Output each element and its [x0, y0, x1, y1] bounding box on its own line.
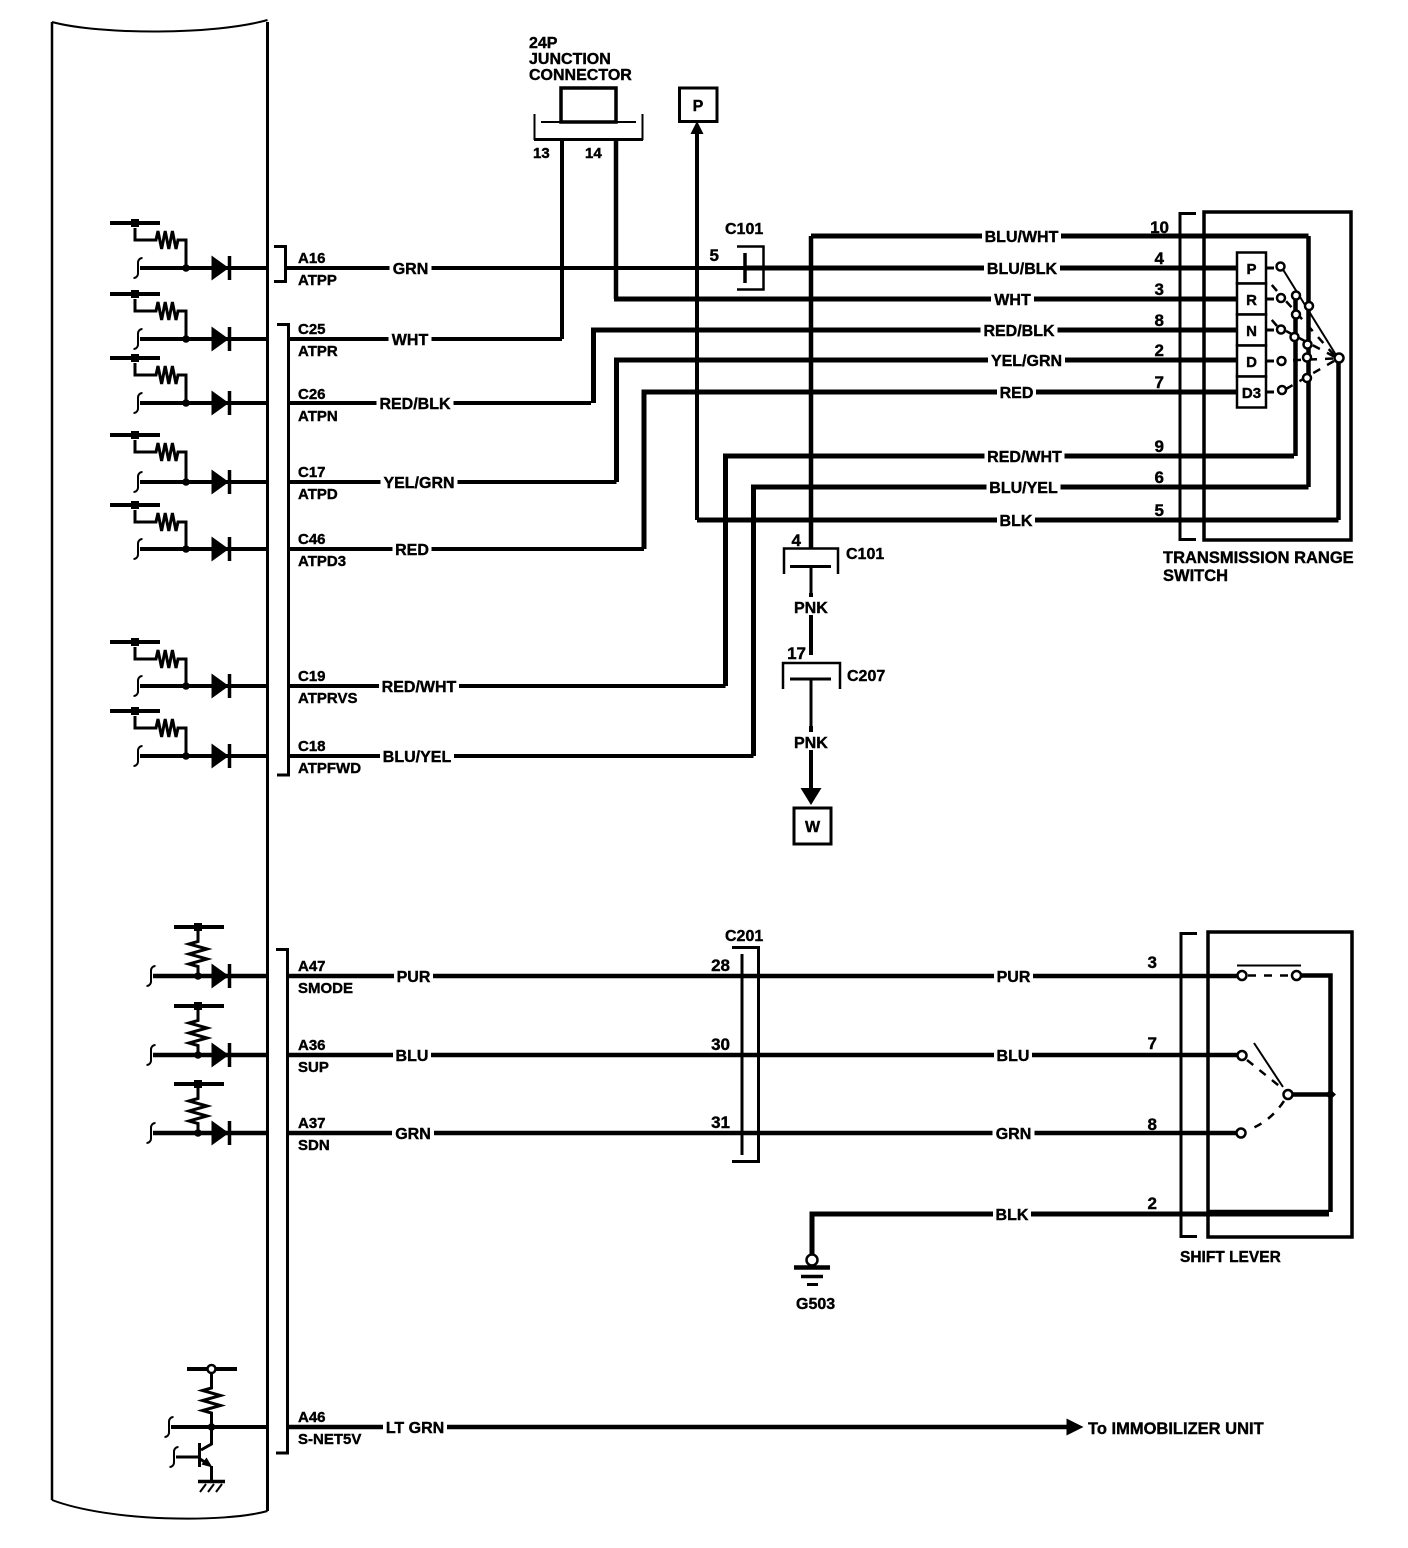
- svg-text:D: D: [1246, 354, 1257, 371]
- P box: [680, 88, 718, 122]
- wire (Q1 emitter to ground): [210, 1466, 213, 1481]
- wire PNK (C207 to W): [809, 726, 813, 790]
- diode (C26): [212, 391, 230, 415]
- pin number 17: [783, 644, 807, 663]
- ground (internal, chassis style): [198, 1480, 225, 1484]
- label BLU/BLK: [984, 259, 1060, 278]
- label LT GRN: [383, 1418, 447, 1437]
- svg-text:R: R: [1246, 292, 1257, 309]
- node (square, C17 feed): [131, 431, 139, 439]
- svg-text:RED/WHT: RED/WHT: [987, 449, 1062, 466]
- svg-text:5: 5: [1155, 501, 1164, 520]
- 24P junction connector left cap: [534, 114, 536, 140]
- wire (A36 main line): [153, 1053, 267, 1058]
- wire continuation mark (A47): [147, 966, 156, 986]
- wire continuation mark (A16): [134, 258, 143, 278]
- svg-text:ATPD: ATPD: [298, 486, 338, 503]
- svg-text:N: N: [1246, 323, 1257, 340]
- svg-text:WHT: WHT: [392, 332, 429, 349]
- svg-text:BLU: BLU: [997, 1048, 1030, 1065]
- wire (bias feed C25): [110, 292, 160, 296]
- svg-text:BLU: BLU: [396, 1048, 429, 1065]
- svg-text:PUR: PUR: [397, 969, 431, 986]
- transistor Q1 (collector lead): [201, 1427, 212, 1450]
- svg-text:G503: G503: [796, 1296, 835, 1313]
- control module boundary (bottom wavy edge): [52, 1500, 268, 1519]
- wire (C17 main line): [140, 480, 267, 484]
- svg-text:S-NET5V: S-NET5V: [298, 1431, 361, 1448]
- TRS connector bracket: [1180, 214, 1196, 540]
- arrowhead to immobilizer: [1067, 1419, 1084, 1436]
- label WHT: [389, 330, 432, 349]
- dashed traveler to N: [1271, 319, 1334, 357]
- moving contact circle (pin 10): [1305, 302, 1313, 310]
- svg-text:C46: C46: [298, 531, 326, 548]
- moving contact circle m3: [1291, 333, 1299, 341]
- connector bracket A16: [274, 247, 286, 282]
- wire riser to C101 pin 4: [809, 236, 814, 549]
- dashed switch pin3: [1248, 974, 1291, 977]
- svg-text:30: 30: [711, 1035, 730, 1054]
- C207 cap male T: [790, 679, 831, 726]
- position box P: [1237, 253, 1266, 284]
- label BLK right: [997, 511, 1035, 530]
- label PUR right: [994, 967, 1033, 986]
- wire BLU/YEL (C18 to TRS pin 6): [287, 754, 754, 758]
- node (A46 junction): [208, 1423, 216, 1431]
- ground riser circle G503: [807, 1255, 818, 1266]
- svg-text:ATPRVS: ATPRVS: [298, 690, 357, 707]
- resistor (A46 vertical): [203, 1373, 221, 1427]
- svg-text:YEL/GRN: YEL/GRN: [383, 475, 454, 492]
- svg-text:BLU/BLK: BLU/BLK: [987, 261, 1058, 278]
- label YEL/GRN left: [381, 473, 458, 492]
- C201 connector female bracket: [732, 948, 759, 1162]
- diode (C25): [212, 327, 230, 351]
- wire continuation mark (Q1 base): [170, 1447, 179, 1467]
- svg-text:A36: A36: [298, 1037, 326, 1054]
- diode (A37): [212, 1121, 230, 1145]
- wire BLK (P arrow drop to TRS pin 5): [695, 128, 699, 520]
- svg-text:LT GRN: LT GRN: [386, 1420, 444, 1437]
- W box (warning indicator): [794, 808, 831, 844]
- label BLK lower: [993, 1205, 1031, 1224]
- position box R: [1237, 284, 1266, 315]
- label BLU left: [393, 1046, 431, 1065]
- svg-text:W: W: [805, 819, 821, 836]
- control module boundary (right edge): [266, 22, 269, 1511]
- C201 connector male line: [741, 954, 744, 1155]
- svg-text:SMODE: SMODE: [298, 980, 353, 997]
- node (C46 junction): [182, 545, 190, 553]
- resistor (C46 pull-up): [135, 510, 186, 550]
- wire YEL/GRN (C17 to TRS pin 2): [287, 480, 617, 484]
- svg-text:A16: A16: [298, 250, 326, 267]
- arrowhead into W box: [801, 788, 822, 805]
- wire continuation mark (C19): [134, 676, 143, 696]
- node (square, A16 feed): [131, 219, 139, 227]
- node (square, C46 feed): [131, 501, 139, 509]
- diode (C17): [212, 470, 230, 494]
- wire (A37 main line): [153, 1131, 267, 1136]
- svg-text:BLU/YEL: BLU/YEL: [383, 749, 452, 766]
- wire (C19 main line): [140, 684, 267, 688]
- wire pin 10 / pin 6 vertical chain inside TRS: [1306, 236, 1311, 487]
- wire PUR (A47 to shift lever pin 3): [286, 974, 1238, 979]
- transistor Q1 (emitter lead with arrow): [200, 1459, 207, 1464]
- svg-text:RED: RED: [395, 542, 429, 559]
- switch blade P to common (solid): [1283, 270, 1336, 356]
- svg-text:C207: C207: [847, 668, 885, 685]
- svg-text:C19: C19: [298, 668, 326, 685]
- node (C25 junction): [182, 335, 190, 343]
- contact stub D3: [1266, 391, 1274, 394]
- svg-text:RED: RED: [1000, 385, 1034, 402]
- node (C26 junction): [182, 399, 190, 407]
- resistor (C17 pull-up): [135, 440, 186, 480]
- node junction diamond: [1325, 1090, 1336, 1100]
- wire pin 9 vertical chain inside TRS: [1293, 296, 1298, 456]
- moving contact circle m6: [1303, 374, 1311, 382]
- node (square, C25 feed): [131, 290, 139, 298]
- control module boundary (top wavy edge): [52, 20, 268, 32]
- label YEL/GRN right: [988, 351, 1065, 370]
- shift lever box: [1208, 932, 1352, 1237]
- diode (C19): [212, 674, 230, 698]
- svg-text:C25: C25: [298, 321, 326, 338]
- resistor (C26 pull-up): [135, 363, 186, 403]
- resistor (C19 pull-up): [135, 647, 186, 687]
- svg-text:ATPR: ATPR: [298, 343, 338, 360]
- diode (C18): [212, 744, 230, 768]
- svg-text:C17: C17: [298, 464, 326, 481]
- svg-text:31: 31: [711, 1113, 730, 1132]
- resistor (A37 vertical): [189, 1088, 207, 1133]
- svg-text:10: 10: [1150, 218, 1169, 237]
- node (C17 junction): [182, 478, 190, 486]
- PNK label: [792, 597, 834, 617]
- contact stub P: [1266, 267, 1274, 270]
- node (open circle, A46 feed): [208, 1365, 216, 1373]
- svg-text:A47: A47: [298, 958, 326, 975]
- svg-text:YEL/GRN: YEL/GRN: [991, 353, 1062, 370]
- wire (bias feed A37): [174, 1082, 224, 1086]
- contact circle pin 3 right: [1292, 971, 1301, 980]
- moving contact circle m4: [1304, 341, 1312, 349]
- contact circle pin 7: [1238, 1051, 1247, 1060]
- wire LT GRN (A46 to immobilizer): [286, 1425, 1069, 1430]
- node (A36 junction): [194, 1051, 202, 1059]
- svg-text:C101: C101: [846, 546, 884, 563]
- svg-text:SDN: SDN: [298, 1137, 330, 1154]
- wire pin 5 riser inside TRS: [1336, 358, 1341, 520]
- contact circle N: [1277, 326, 1285, 334]
- wire junction connector pin 14 drop and WHT right (to TRS pin 3): [614, 140, 619, 299]
- dashed traveler common to pin8: [1248, 1101, 1284, 1130]
- wire common to bus with junction diamond: [1292, 1092, 1331, 1097]
- label GRN: [390, 259, 432, 278]
- label BLU/WHT: [982, 227, 1061, 246]
- svg-text:C26: C26: [298, 386, 326, 403]
- label RED/BLK left: [377, 394, 454, 413]
- wire continuation mark (A36): [147, 1045, 156, 1065]
- wire continuation mark (C18): [134, 746, 143, 766]
- switch blade (solid) pin 7: [1254, 1043, 1283, 1087]
- wire (C26 main line): [140, 401, 267, 405]
- wire (bias feed A47): [174, 925, 224, 929]
- svg-text:2: 2: [1155, 341, 1164, 360]
- node (square, A36 feed): [194, 1002, 202, 1010]
- contact circle P: [1277, 263, 1285, 271]
- wire (bias feed C19): [110, 640, 160, 644]
- transistor Q1 (base lead): [176, 1456, 198, 1459]
- svg-text:ATPP: ATPP: [298, 272, 337, 289]
- svg-text:6: 6: [1155, 468, 1164, 487]
- shift lever connector bracket: [1181, 934, 1197, 1237]
- svg-text:WHT: WHT: [994, 292, 1031, 309]
- label RED right: [997, 383, 1036, 402]
- C207 cap bracket: [783, 663, 840, 689]
- common point circle: [1335, 354, 1344, 363]
- PNK label 2: [792, 732, 834, 752]
- resistor (A36 vertical): [189, 1010, 207, 1055]
- label BLU/YEL left: [380, 747, 454, 766]
- dashed traveler to R: [1271, 284, 1334, 355]
- wire continuation mark (A37): [147, 1123, 156, 1143]
- wire BLU (A36 to shift lever pin 7): [286, 1053, 1238, 1058]
- label BLU right: [994, 1046, 1032, 1065]
- svg-text:PUR: PUR: [997, 969, 1031, 986]
- contact stub R: [1266, 298, 1274, 301]
- svg-text:BLK: BLK: [1000, 513, 1033, 530]
- node (C18 junction): [182, 752, 190, 760]
- svg-text:BLK: BLK: [996, 1207, 1029, 1224]
- node (square, C18 feed): [131, 707, 139, 715]
- wire GRN / BLU-BLK (A16 to TRS pin 4): [284, 266, 745, 270]
- svg-text:5: 5: [710, 246, 719, 265]
- svg-text:BLU/YEL: BLU/YEL: [989, 480, 1058, 497]
- transistor Q1 (base bar): [198, 1443, 201, 1467]
- C101 cap bracket: [784, 549, 838, 575]
- node (square, C19 feed): [131, 638, 139, 646]
- svg-text:JUNCTION: JUNCTION: [529, 51, 611, 68]
- svg-text:A46: A46: [298, 1409, 326, 1426]
- svg-text:ATPD3: ATPD3: [298, 553, 346, 570]
- svg-text:GRN: GRN: [395, 1126, 431, 1143]
- dashed traveler to D3: [1286, 361, 1334, 389]
- wire from pin3 contact to right bus: [1301, 976, 1331, 1213]
- wire junction connector pin 13 riser: [560, 140, 564, 339]
- svg-text:CONNECTOR: CONNECTOR: [529, 67, 632, 84]
- wire (A16 main line): [140, 266, 267, 270]
- wire (bias feed A16): [110, 221, 160, 225]
- svg-text:ATPN: ATPN: [298, 408, 338, 425]
- 24P junction connector bar (thin line): [541, 121, 636, 123]
- wire RED/WHT (C19 to TRS pin 9): [287, 684, 726, 688]
- 24P junction connector body: [561, 88, 616, 122]
- svg-text:SUP: SUP: [298, 1059, 329, 1076]
- node (A16 junction): [182, 264, 190, 272]
- svg-text:17: 17: [787, 644, 806, 663]
- node (square, A37 feed): [194, 1080, 202, 1088]
- svg-text:28: 28: [711, 956, 730, 975]
- svg-text:ATPFWD: ATPFWD: [298, 760, 361, 777]
- label WHT right: [991, 290, 1034, 309]
- label GRN lower right: [993, 1124, 1035, 1143]
- node (square, A47 feed): [194, 923, 202, 931]
- wire BLK inside shift lever: [1208, 1210, 1329, 1215]
- contact circle R: [1277, 294, 1285, 302]
- contact circle D3: [1278, 386, 1286, 394]
- svg-text:3: 3: [1148, 953, 1157, 972]
- resistor (C25 pull-up): [135, 299, 186, 339]
- node (A37 junction): [194, 1129, 202, 1137]
- svg-text:BLU/WHT: BLU/WHT: [985, 229, 1059, 246]
- svg-text:To IMMOBILIZER UNIT: To IMMOBILIZER UNIT: [1088, 1420, 1264, 1438]
- svg-text:2: 2: [1148, 1194, 1157, 1213]
- svg-text:13: 13: [533, 145, 550, 162]
- svg-text:7: 7: [1155, 373, 1164, 392]
- wire continuation mark (C26): [134, 393, 143, 413]
- svg-text:C101: C101: [725, 221, 763, 238]
- svg-text:GRN: GRN: [393, 261, 429, 278]
- svg-text:3: 3: [1155, 280, 1164, 299]
- wire (A46 main line): [171, 1425, 267, 1429]
- contact circle D: [1278, 357, 1286, 365]
- closed contact indicator (solid line): [1237, 965, 1301, 967]
- ground G503 bar 3: [807, 1283, 818, 1286]
- svg-text:4: 4: [792, 531, 802, 550]
- moving contact circle m1: [1292, 292, 1300, 300]
- C101 cap male T: [790, 567, 831, 594]
- svg-text:C201: C201: [725, 928, 763, 945]
- 24P junction connector right cap: [642, 114, 644, 140]
- wire (C46 main line): [140, 547, 267, 551]
- svg-text:P: P: [1246, 261, 1256, 278]
- svg-text:D3: D3: [1242, 385, 1261, 402]
- wire (bias feed A46): [187, 1367, 237, 1371]
- wire WHT left (C25 to junction connector pin 13): [287, 337, 562, 341]
- ground G503 bar 2: [801, 1275, 823, 1279]
- svg-text:P: P: [693, 98, 704, 115]
- resistor (A47 vertical): [189, 931, 207, 976]
- wire (bias feed C17): [110, 433, 160, 437]
- svg-text:TRANSMISSION RANGE: TRANSMISSION RANGE: [1163, 549, 1354, 567]
- arrowhead into P box: [691, 121, 704, 134]
- position box D: [1237, 346, 1266, 377]
- label RED/BLK right: [981, 321, 1058, 340]
- diode (C46): [212, 537, 230, 561]
- wire PNK (C101 to C207): [809, 593, 813, 655]
- contact circle pin 8: [1237, 1129, 1246, 1138]
- svg-text:9: 9: [1155, 437, 1164, 456]
- wire (C18 main line): [140, 754, 267, 758]
- wire BLK (G503 to shift lever pin 2): [812, 1214, 1329, 1254]
- svg-text:RED/BLK: RED/BLK: [379, 396, 451, 413]
- svg-text:SWITCH: SWITCH: [1163, 567, 1228, 585]
- contact stub N: [1266, 329, 1274, 332]
- svg-text:A37: A37: [298, 1115, 326, 1132]
- svg-text:14: 14: [585, 145, 602, 162]
- wire BLU/WHT (C101 branch to TRS pin 10): [811, 234, 1309, 239]
- 24P junction connector bottom bar: [534, 138, 643, 141]
- svg-text:8: 8: [1155, 311, 1164, 330]
- svg-text:24P: 24P: [529, 35, 558, 52]
- wire continuation mark (C25): [134, 329, 143, 349]
- node (A47 junction): [194, 972, 202, 980]
- resistor (A16 pull-up): [135, 228, 186, 268]
- diode (A47): [212, 964, 230, 988]
- wire continuation mark (A46): [165, 1417, 174, 1437]
- common contact circle: [1284, 1090, 1293, 1099]
- svg-text:PNK: PNK: [794, 600, 828, 617]
- label GRN lower left: [392, 1124, 434, 1143]
- contact stub D: [1266, 360, 1274, 363]
- svg-text:SHIFT LEVER: SHIFT LEVER: [1180, 1249, 1281, 1266]
- dashed traveler to D: [1287, 359, 1333, 361]
- wire (A47 main line): [153, 974, 267, 979]
- wire continuation mark (C46): [134, 539, 143, 559]
- contact circle pin 3: [1238, 971, 1247, 980]
- svg-text:C18: C18: [298, 738, 326, 755]
- wire (bias feed A36): [174, 1004, 224, 1008]
- svg-text:7: 7: [1148, 1034, 1157, 1053]
- moving contact circle m5: [1303, 354, 1311, 362]
- TRS box: [1204, 212, 1351, 540]
- wire GRN (A37 to shift lever pin 8): [286, 1131, 1237, 1136]
- node (square, C26 feed): [131, 354, 139, 362]
- connector bracket C25-C18 group: [277, 325, 289, 776]
- position box N: [1237, 315, 1266, 346]
- C101 male pin bar: [743, 253, 747, 283]
- label RED left: [393, 540, 432, 559]
- diode (A16): [212, 256, 230, 280]
- wire (bias feed C26): [110, 356, 160, 360]
- svg-text:4: 4: [1155, 249, 1165, 268]
- svg-text:GRN: GRN: [996, 1126, 1032, 1143]
- wire RED/BLK (C26 to TRS pin 8): [287, 401, 591, 405]
- svg-text:PNK: PNK: [794, 735, 828, 752]
- control module boundary (left edge): [51, 22, 54, 1500]
- position box D3: [1237, 377, 1266, 408]
- moving contact circle m2: [1292, 311, 1300, 319]
- label PUR left: [394, 967, 433, 986]
- connector bracket A47-A46 group: [276, 950, 288, 1454]
- resistor (C18 pull-up): [135, 716, 186, 756]
- wire continuation mark (C17): [134, 472, 143, 492]
- node (C19 junction): [182, 682, 190, 690]
- diode (A36): [212, 1043, 230, 1067]
- wire (C25 main line): [140, 337, 267, 341]
- svg-text:RED/WHT: RED/WHT: [382, 679, 457, 696]
- wire (bias feed C46): [110, 503, 160, 507]
- wire (bias feed C18): [110, 709, 160, 713]
- label RED/WHT right: [985, 447, 1065, 466]
- svg-text:8: 8: [1148, 1115, 1157, 1134]
- label RED/WHT left: [379, 677, 459, 696]
- label BLU/YEL right: [987, 478, 1061, 497]
- ground G503 bar 1: [794, 1265, 830, 1270]
- C101 female bracket: [737, 247, 764, 290]
- dashed traveler pin7 to common: [1247, 1060, 1283, 1089]
- wire RED (C46 to TRS pin 7): [287, 547, 644, 551]
- svg-text:RED/BLK: RED/BLK: [983, 323, 1055, 340]
